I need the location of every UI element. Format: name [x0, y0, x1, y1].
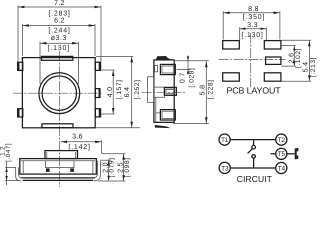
front view stem inner walls [47, 152, 76, 159]
front view foot left [46, 168, 50, 172]
svg-text:5.4: 5.4 [303, 62, 310, 73]
terminal T2 [276, 134, 287, 145]
front view base bottom [23, 179, 93, 181]
terminal tab top-left [17, 62, 23, 71]
front view inner top line [21, 161, 95, 174]
terminal tab middle-right T5 case [95, 88, 100, 97]
wire ext line 2.5 top [102, 153, 126, 155]
svg-text:5.8: 5.8 [200, 85, 207, 96]
wire ext line 2.6 bottom [281, 65, 295, 67]
svg-text:0.7: 0.7 [180, 72, 187, 83]
svg-text:[.102]: [.102] [295, 48, 302, 68]
svg-text:3.3: 3.3 [247, 22, 258, 29]
wire ext line 6.4 bottom [96, 127, 140, 129]
side view bottom cover tab [155, 125, 171, 128]
svg-text:[.098]: [.098] [124, 157, 131, 177]
svg-text:T3: T3 [221, 165, 229, 172]
node sideview centerline [142, 91, 187, 93]
front view foot right [70, 168, 74, 172]
wire ext line 0.7 bottom [177, 68, 191, 70]
svg-text:[.252]: [.252] [134, 79, 141, 99]
wire dim line 8.8 [223, 12, 280, 14]
cover strip top [42, 56, 73, 60]
wire ext line 3.6 right [101, 140, 103, 153]
wire ext line 0.7 top / 5.8 top [175, 60, 209, 62]
wire ext line 6.2 left [22, 24, 24, 56]
wire dim line 2.6 [293, 46, 295, 67]
front view lead right J [93, 161, 100, 181]
wire ext line 5.4 top [281, 39, 311, 41]
svg-text:T4: T4 [278, 165, 286, 172]
wire ext line 1.2 top [5, 166, 16, 168]
switch body top view outline [22, 58, 95, 128]
side view stem plunger wide [155, 87, 175, 97]
wire ext line 6.2 right [94, 24, 96, 56]
wire ext line 4.0 top [102, 69, 115, 71]
pad bottom-left [223, 73, 240, 81]
svg-text:ø3.3: ø3.3 [51, 35, 67, 42]
svg-text:T1: T1 [221, 137, 229, 144]
side view lead middle T5 [164, 87, 176, 95]
svg-text:[.047]: [.047] [5, 143, 12, 162]
wire ext line 3.3 pcb right [265, 27, 267, 40]
wire ext line 2.0 top [101, 159, 111, 161]
terminal tab bottom-right [95, 109, 101, 118]
node topview centerline horizontal [13, 92, 103, 94]
wire ext line 1.2 bottom [5, 180, 18, 182]
pad top-right [264, 41, 281, 49]
wire dim line 0.7 [187, 56, 189, 75]
wire ext line 7.2 right [100, 6, 102, 62]
svg-text:8.8: 8.8 [248, 6, 259, 13]
svg-text:[.350]: [.350] [243, 13, 265, 21]
wire T5 to case [287, 153, 295, 155]
wire T1 to T2 [230, 139, 276, 141]
wire ext line dia3.3 left [39, 42, 41, 84]
case symbol [295, 148, 299, 159]
pad bottom-right [264, 73, 281, 81]
wire dim line 1.2 [6, 162, 8, 186]
svg-text:PCB LAYOUT: PCB LAYOUT [226, 86, 281, 96]
side view notch upper-left [155, 65, 158, 71]
wire dim line dia3.3 [40, 42, 79, 44]
terminal T4 [276, 162, 287, 173]
wire switch upper stem [253, 140, 255, 146]
front view base plate [21, 177, 95, 179]
wire ext line 3.3 pcb left [239, 27, 241, 40]
wire dim line 5.8 [205, 61, 207, 124]
wire dim line 3.6 [61, 141, 102, 143]
wire ext line 5.8 bottom [173, 123, 209, 125]
wire dim line 3.3 pcb [240, 28, 267, 30]
terminal T3 [219, 162, 230, 173]
wire ext line 5.4 bottom [281, 80, 311, 82]
wire dim line 6.4 [131, 56, 133, 127]
terminal T1 [219, 134, 230, 145]
front view stem [45, 151, 78, 159]
wire dim line 2.0 [108, 160, 110, 181]
svg-text:[.130]: [.130] [48, 44, 70, 52]
svg-text:T5: T5 [278, 151, 286, 158]
side view body outline [154, 60, 174, 122]
switch contact upper [252, 145, 256, 149]
pad middle T5 [266, 57, 281, 64]
wire ext line 4.0 bottom [102, 113, 115, 115]
svg-text:6.4: 6.4 [124, 87, 131, 98]
svg-text:[.079]: [.079] [108, 157, 115, 177]
wire dim line 7.2 [18, 6, 101, 8]
svg-text:[.142]: [.142] [68, 143, 90, 151]
svg-text:3.6: 3.6 [72, 134, 83, 141]
wire dim line 2.5 [123, 154, 125, 181]
wire ext line 2.0 2.5 bottom [98, 180, 125, 182]
svg-text:[.157]: [.157] [116, 79, 123, 99]
switch contact lower [252, 155, 256, 159]
side view left flange [148, 77, 154, 103]
button inner circle [42, 76, 76, 110]
svg-text:[.244]: [.244] [48, 27, 70, 35]
button outer circle [39, 73, 80, 114]
svg-text:[.228]: [.228] [208, 79, 215, 99]
node pcb centerline horizontal [219, 59, 286, 61]
wire switch lower stem [253, 158, 255, 168]
side view lead bottom [160, 110, 175, 120]
wire ext line dia3.3 right [78, 42, 80, 84]
wire ext line 8.8 left [222, 11, 224, 39]
svg-text:6.2: 6.2 [54, 17, 65, 24]
terminal tab top-right [95, 62, 101, 71]
wire ext line 6.4 top [96, 55, 133, 57]
cover strip bottom [42, 124, 73, 128]
svg-text:[.028]: [.028] [189, 68, 196, 88]
svg-text:[.283]: [.283] [48, 9, 70, 17]
side view top cover tab [156, 56, 172, 60]
wire ext line 2.6 top [281, 45, 295, 47]
wire ext line 7.2 left [17, 6, 19, 62]
pad top-left [223, 41, 240, 49]
wire dim line 6.2 [23, 25, 96, 27]
svg-text:[.213]: [.213] [310, 57, 317, 77]
terminal T5 [276, 148, 287, 159]
wire T5 stub left [271, 153, 276, 155]
side view lead top [160, 64, 175, 74]
wire dim line 4.0 [112, 70, 114, 114]
wire dim line 5.4 [308, 40, 310, 81]
svg-text:[.130]: [.130] [241, 31, 263, 39]
front view body [20, 159, 97, 175]
switch arm [248, 149, 253, 154]
svg-text:4.0: 4.0 [107, 87, 114, 98]
front view lead left J [16, 167, 23, 181]
svg-text:CIRCUIT: CIRCUIT [237, 174, 273, 184]
wire ext line 8.8 right [279, 11, 281, 39]
wire T3 to T4 [230, 167, 275, 169]
terminal tab bottom-left [17, 109, 23, 118]
node topview centerline vertical [59, 51, 61, 187]
front view inner opening [45, 161, 74, 168]
node pcb centerline vertical [250, 33, 252, 88]
svg-text:T2: T2 [278, 137, 286, 144]
svg-text:7.2: 7.2 [54, 0, 65, 7]
side view inner line lower-left [156, 97, 161, 121]
